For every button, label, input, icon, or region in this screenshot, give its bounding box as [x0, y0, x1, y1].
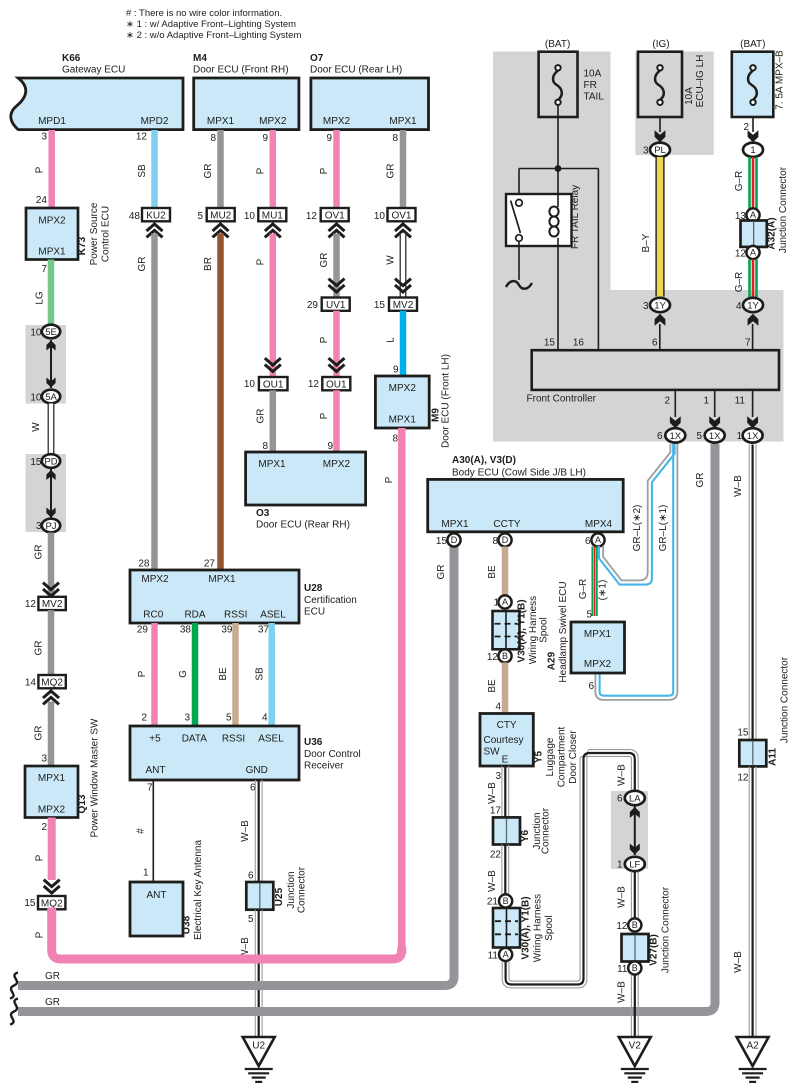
svg-text:Power Source: Power Source: [89, 202, 100, 265]
break squiggle GR trunk upper: [10, 973, 18, 999]
svg-text:A30(A), V3(D): A30(A), V3(D): [452, 455, 516, 466]
wire W-B from U25:5 to ground U2: [254, 910, 256, 1037]
wire W-B from A11 to ground A2: [748, 766, 750, 1037]
svg-text:SB: SB: [137, 164, 148, 178]
wire GR from MV2 to MQ2: [48, 610, 55, 675]
svg-text:W–B: W–B: [487, 782, 498, 804]
svg-text:K66: K66: [62, 53, 81, 64]
svg-text:ASEL: ASEL: [260, 610, 286, 621]
svg-text:3: 3: [41, 132, 47, 143]
svg-text:PL: PL: [654, 145, 666, 156]
svg-text:Certification: Certification: [304, 595, 357, 606]
wire P trunk from MQ2 to M9 riser: [52, 908, 402, 960]
ECU A30 Body ECU box: [428, 479, 624, 531]
svg-text:MQ2: MQ2: [41, 677, 63, 688]
connector box MQ2: [38, 675, 65, 688]
wire G from U28:38 to U36:3: [192, 623, 199, 726]
svg-text:Compartment: Compartment: [557, 726, 568, 787]
svg-text:MPX1: MPX1: [389, 415, 417, 426]
ground V2: [619, 1037, 651, 1066]
svg-text:RC0: RC0: [143, 610, 163, 621]
wire P from OU1 right to O3:9: [333, 390, 340, 452]
wire BE from spool B to CTY:4: [502, 663, 509, 714]
svg-text:12: 12: [25, 599, 37, 610]
svg-text:5: 5: [226, 713, 232, 724]
V27 pin circle B bottom: [628, 961, 641, 974]
svg-text:Q13: Q13: [77, 794, 88, 813]
svg-text:3: 3: [643, 146, 649, 157]
svg-text:1X: 1X: [747, 431, 759, 442]
svg-text:5: 5: [197, 211, 203, 222]
svg-text:FR TAIL Relay: FR TAIL Relay: [570, 185, 581, 249]
chevron arrows below MU2: [213, 224, 229, 231]
svg-text:W: W: [386, 255, 397, 265]
svg-text:7. 5A MPX–B: 7. 5A MPX–B: [775, 50, 786, 110]
wire 1Y left to FC pin 6: [659, 324, 661, 350]
wire from fuse FR TAIL to junction: [557, 105, 559, 168]
svg-text:Power Window Master SW: Power Window Master SW: [90, 718, 101, 837]
svg-text:28: 28: [138, 559, 150, 570]
svg-text:MPX1: MPX1: [441, 519, 469, 530]
fuse 7.5A MPX-B box: [732, 52, 774, 117]
connector oval 1Y right: [743, 298, 763, 312]
svg-text:5: 5: [586, 610, 592, 621]
svg-text:6: 6: [248, 871, 254, 882]
svg-text:5: 5: [248, 914, 254, 925]
wiring harness spool V30A Y1B upper box: [493, 611, 520, 649]
svg-text:10: 10: [374, 211, 386, 222]
svg-text:Spool: Spool: [544, 915, 555, 941]
svg-text:W: W: [31, 422, 42, 432]
connector box OU1 left: [259, 377, 288, 390]
svg-text:8: 8: [392, 133, 398, 144]
svg-text:DATA: DATA: [182, 734, 208, 745]
svg-text:Body ECU (Cowl Side J/B LH): Body ECU (Cowl Side J/B LH): [452, 468, 586, 479]
svg-text:11: 11: [735, 396, 746, 407]
svg-text:14: 14: [25, 678, 37, 689]
svg-text:8: 8: [392, 434, 398, 445]
svg-text:B: B: [632, 920, 638, 930]
svg-text:W–B: W–B: [733, 475, 744, 497]
fuse 10A ECU-IG LH symbol: [657, 65, 662, 70]
svg-text:PD: PD: [44, 456, 57, 467]
arrow out of 1Y right: [748, 314, 759, 326]
chevron arrows below OV1 right: [395, 224, 411, 231]
svg-text:Connector: Connector: [541, 807, 552, 854]
svg-text:3: 3: [41, 754, 47, 765]
Body ECU pin circle D MPX1: [447, 533, 460, 546]
svg-text:ECU–IG LH: ECU–IG LH: [695, 55, 706, 108]
svg-text:1X: 1X: [669, 431, 681, 442]
svg-text:3: 3: [184, 713, 190, 724]
svg-text:12: 12: [306, 211, 318, 222]
svg-text:15: 15: [737, 728, 749, 739]
svg-text:1: 1: [703, 396, 709, 407]
svg-text:G: G: [178, 670, 189, 678]
wire P from K66:3 to K73:24: [48, 130, 55, 208]
connector oval 1: [743, 143, 763, 157]
svg-text:Wiring Harness: Wiring Harness: [528, 596, 539, 664]
wire W-B from U36:6 GND to U25: [254, 780, 256, 882]
svg-text:ANT: ANT: [146, 765, 166, 776]
spool pin circle A: [498, 595, 511, 608]
svg-text:48: 48: [129, 211, 141, 222]
svg-text:(BAT): (BAT): [740, 39, 765, 50]
svg-text:7: 7: [147, 783, 153, 794]
connector box OV1 left: [321, 208, 349, 221]
svg-text:MPX2: MPX2: [38, 216, 66, 227]
svg-text:Connector: Connector: [297, 866, 308, 913]
wire B-Y from PL to 1Y: [656, 157, 664, 297]
wire junction right drop to FC pin 16: [597, 169, 599, 351]
junction A32 pin circle A top: [746, 208, 759, 221]
svg-text:P: P: [319, 336, 330, 343]
svg-text:GR: GR: [45, 971, 60, 982]
gray panel behind PD-PJ connector pair: [26, 454, 67, 532]
connector oval LA: [625, 791, 645, 805]
svg-text:21: 21: [487, 897, 499, 908]
svg-text:OV1: OV1: [325, 210, 345, 221]
svg-text:11: 11: [488, 951, 499, 962]
wire GR from MQ2 to Q13:3: [48, 702, 55, 767]
wire BE from U28:39 to U36:5: [232, 623, 239, 726]
connector oval 1X-1: [743, 428, 763, 442]
svg-text:(BAT): (BAT): [545, 39, 570, 50]
svg-text:5A: 5A: [45, 392, 57, 403]
junction connector A11 box: [739, 740, 766, 766]
svg-text:A2: A2: [746, 1041, 759, 1052]
relay coil wire out to FC pin 15: [557, 238, 559, 350]
svg-text:38: 38: [180, 625, 192, 636]
ECU M4 Door ECU Front RH box: [194, 78, 299, 130]
svg-text:1Y: 1Y: [747, 300, 759, 311]
svg-text:12: 12: [735, 249, 747, 260]
svg-text:ASEL: ASEL: [258, 734, 284, 745]
wire GR trunk lower from break to Front Controller 1X: [18, 444, 715, 1012]
svg-text:GR: GR: [319, 253, 330, 268]
svg-text:Front Controller: Front Controller: [527, 394, 597, 405]
svg-text:MPX2: MPX2: [584, 659, 612, 670]
svg-text:6: 6: [617, 794, 623, 805]
svg-text:O3: O3: [256, 508, 270, 519]
svg-text:10: 10: [30, 328, 42, 339]
connector oval PL: [650, 143, 670, 157]
svg-text:B: B: [503, 896, 509, 906]
svg-text:2: 2: [664, 396, 670, 407]
svg-text:B: B: [502, 651, 508, 661]
svg-text:9: 9: [326, 133, 332, 144]
svg-text:12: 12: [308, 379, 320, 390]
svg-text:Spool: Spool: [539, 617, 550, 643]
svg-text:24: 24: [36, 195, 48, 206]
svg-text:SW: SW: [484, 747, 501, 758]
wire W-B from CTY E to Y6: [501, 766, 503, 817]
svg-text:Junction Connector: Junction Connector: [780, 656, 791, 743]
svg-text:Control ECU: Control ECU: [101, 206, 112, 262]
svg-text:12: 12: [136, 132, 148, 143]
svg-text:1: 1: [143, 868, 149, 879]
connector box KU2: [142, 208, 170, 221]
svg-text:P: P: [319, 412, 330, 419]
connector box MU1: [258, 208, 286, 221]
svg-text:GR: GR: [137, 257, 148, 272]
svg-text:MU1: MU1: [262, 210, 284, 221]
relay contact bottom terminal: [516, 235, 523, 242]
connector pair arrow 5E-5A: [50, 340, 52, 388]
svg-text:GR: GR: [203, 164, 214, 179]
connector oval 1Y left: [650, 298, 670, 312]
svg-text:A: A: [503, 950, 509, 960]
svg-text:4: 4: [736, 301, 742, 312]
fuse 7.5A MPX-B symbol: [750, 65, 755, 70]
svg-text:U28: U28: [304, 583, 323, 594]
wire W-B from Y6 to spool B21: [501, 845, 503, 895]
fuse 10A ECU-IG LH box: [638, 52, 682, 117]
svg-text:GR: GR: [695, 473, 706, 488]
svg-text:Gateway ECU: Gateway ECU: [62, 65, 125, 76]
svg-text:A11: A11: [768, 748, 779, 766]
svg-text:U36: U36: [304, 737, 323, 748]
wire GR-L(*1) from A29 MPX2 to 1X-6: [600, 444, 674, 696]
chevron arrows above MV2 right: [395, 285, 411, 292]
wire junction left drop to relay contact: [518, 169, 520, 200]
svg-text:Luggage: Luggage: [545, 737, 556, 776]
gray panel behind 1Y connectors and Front Controller: [610, 290, 784, 442]
junction connector V27(B) box: [622, 934, 649, 962]
wire junction horizontal: [519, 168, 598, 170]
svg-text:1: 1: [750, 145, 755, 156]
svg-text:B: B: [632, 963, 638, 973]
svg-text:CTY: CTY: [497, 720, 517, 731]
svg-text:17: 17: [490, 806, 502, 817]
svg-text:10: 10: [30, 393, 42, 404]
svg-text:W–B: W–B: [240, 820, 251, 842]
svg-text:3: 3: [643, 301, 649, 312]
wire G-R from 1 to A13: [748, 157, 751, 209]
svg-text:G–R: G–R: [734, 171, 745, 192]
fuse 10A FR TAIL box: [539, 52, 578, 117]
svg-text:10A: 10A: [584, 69, 602, 80]
svg-text:Courtesy: Courtesy: [484, 735, 524, 746]
connector oval 1X-5: [705, 428, 725, 442]
wire GR trunk upper from break to Body ECU MPX1: [18, 546, 454, 986]
svg-text:P: P: [35, 166, 46, 173]
relay coil wire in: [557, 169, 559, 208]
wire GR-L(*2) from Body ECU MPX4 A to 1X-6: [603, 444, 670, 580]
svg-text:11: 11: [617, 964, 628, 975]
svg-text:1X: 1X: [709, 431, 721, 442]
svg-text:7: 7: [41, 264, 47, 275]
svg-text:P: P: [256, 258, 267, 265]
wire FC pin1 to 1X-5: [714, 390, 716, 417]
wire L from MV2 to M9:9: [400, 311, 407, 376]
svg-text:(∗1): (∗1): [598, 580, 609, 601]
svg-text:MPX2: MPX2: [323, 459, 351, 470]
svg-text:U38: U38: [182, 915, 193, 934]
svg-text:O7: O7: [310, 53, 324, 64]
break squiggle GR trunk lower: [10, 999, 18, 1025]
ground A2: [737, 1037, 769, 1066]
junction A32 pin circle A bottom: [746, 246, 759, 259]
wire W-B loop spool A11 to LA: [509, 756, 631, 981]
svg-text:MPX2: MPX2: [323, 116, 351, 127]
svg-text:RSSI: RSSI: [222, 734, 245, 745]
svg-text:BE: BE: [218, 667, 229, 681]
switch Q13 Power Window Master SW box: [25, 766, 78, 818]
chevron arrows above MQ2 pink: [44, 886, 60, 893]
svg-text:LA: LA: [629, 793, 641, 804]
svg-text:V2: V2: [629, 1041, 642, 1052]
wire 1Y right to FC pin 7: [752, 324, 754, 350]
wire P from MU1 to OU1: [270, 234, 277, 378]
wire P from O7:9 to OV1: [333, 130, 340, 208]
chevron arrows below MU1: [265, 224, 281, 231]
relay contact top terminal: [516, 200, 523, 207]
svg-text:A29: A29: [547, 651, 558, 670]
svg-text:V30(A), Y1(B): V30(A), Y1(B): [517, 599, 528, 662]
ECU A29 Headlamp Swivel ECU box: [571, 622, 625, 673]
svg-text:9: 9: [393, 365, 399, 376]
svg-text:10: 10: [244, 211, 256, 222]
svg-text:MU2: MU2: [210, 210, 232, 221]
svg-text:P: P: [256, 167, 267, 174]
gray panel behind ECU-IG fuse: [635, 52, 713, 156]
wire P from Q13:2 to MQ2 connector: [48, 818, 56, 881]
svg-text:A: A: [502, 597, 508, 607]
chevron arrows below OV1 left: [329, 224, 345, 231]
wire FC pin2 to 1X-6: [674, 390, 676, 417]
svg-text:L: L: [386, 337, 397, 343]
svg-text:MPX1: MPX1: [208, 574, 236, 585]
arrow into PL: [655, 130, 666, 142]
wire fuse MPX-B to connector 1: [752, 117, 754, 132]
relay FR TAIL Relay box: [506, 194, 572, 246]
svg-text:G–R: G–R: [734, 272, 745, 293]
wire GR from M4:8 to MU2: [217, 130, 224, 208]
connector oval PJ: [42, 519, 60, 533]
svg-text:W–B: W–B: [617, 886, 628, 908]
svg-text:15: 15: [24, 898, 36, 909]
svg-text:Junction Connector: Junction Connector: [661, 886, 672, 973]
wire GR from OU1 to O3:8: [270, 390, 277, 452]
junction node dot: [555, 165, 562, 172]
ECU U28 Certification ECU box: [130, 570, 299, 623]
svg-text:Door ECU (Front LH): Door ECU (Front LH): [441, 354, 452, 448]
wire W-B from LF to B12: [630, 872, 632, 919]
svg-text:3: 3: [495, 771, 501, 782]
fuse 10A FR TAIL symbol: [555, 65, 560, 70]
V27 pin circle B top: [628, 918, 641, 931]
connector box OU1 right: [322, 377, 350, 390]
junction connector U25 box: [246, 882, 273, 910]
junction connector Y6 box: [493, 817, 520, 844]
antenna U38 Electrical Key Antenna box: [130, 882, 183, 936]
svg-text:GR: GR: [386, 164, 397, 179]
svg-text:K73: K73: [77, 236, 88, 255]
connector pair arrow LA-LF: [634, 806, 636, 855]
svg-text:Junction Connector: Junction Connector: [778, 166, 789, 253]
receiver U36 Door Control Receiver box: [130, 726, 299, 780]
wire GR from PJ to MV2: [48, 533, 55, 597]
spool pin circle B: [498, 649, 511, 662]
wire LG from K73:7 to connector 5E: [48, 260, 55, 326]
svg-text:ANT: ANT: [147, 890, 167, 901]
svg-text:BE: BE: [487, 565, 498, 579]
arrow out of 1Y left: [655, 314, 666, 326]
svg-text:Junction: Junction: [286, 871, 297, 908]
svg-text:G–R: G–R: [578, 579, 589, 600]
svg-text:MPX1: MPX1: [38, 247, 66, 258]
wire P from U28:29 to U36:2: [151, 623, 158, 726]
svg-text:BR: BR: [203, 257, 214, 271]
svg-text:BE: BE: [487, 679, 498, 693]
wire GR from OV1 to UV1: [333, 234, 340, 298]
Body ECU pin circle D CCTY: [498, 533, 511, 546]
connector box UV1: [322, 298, 350, 311]
gray panel behind FR TAIL fuse and relay: [493, 52, 611, 442]
svg-text:GR: GR: [436, 565, 447, 580]
svg-text:P: P: [35, 931, 46, 938]
controller Front Controller box: [532, 350, 779, 390]
chevron arrows above UV1: [329, 285, 345, 292]
svg-text:16: 16: [573, 338, 585, 349]
svg-text:Door Control: Door Control: [304, 749, 361, 760]
svg-text:39: 39: [221, 625, 233, 636]
ECU O7 Door ECU Rear LH box: [311, 78, 429, 130]
chevron arrows below KU2: [147, 224, 163, 231]
svg-text:MPX1: MPX1: [389, 116, 417, 127]
svg-text:MPD2: MPD2: [141, 116, 169, 127]
wire P from UV1 to OU1 right: [333, 311, 340, 377]
svg-text:SB: SB: [255, 667, 266, 681]
svg-text:GR: GR: [34, 726, 45, 741]
spool lower pin circle B: [499, 894, 512, 907]
svg-text:UV1: UV1: [326, 300, 346, 311]
svg-text:A: A: [750, 248, 756, 258]
svg-text:9: 9: [262, 133, 268, 144]
connector box MV2 right: [389, 298, 417, 311]
svg-text:(IG): (IG): [652, 39, 669, 50]
wire FC pin11 to 1X-1: [752, 390, 754, 417]
svg-text:Electrical Key Antenna: Electrical Key Antenna: [193, 840, 204, 940]
wire SB from K66:12 to KU2: [151, 130, 158, 208]
svg-text:6: 6: [652, 338, 658, 349]
svg-text:6: 6: [657, 431, 663, 442]
wire relay contact to break: [518, 241, 520, 280]
svg-text:GR: GR: [34, 545, 45, 560]
svg-text:P: P: [35, 854, 46, 861]
svg-text:A: A: [750, 210, 756, 220]
connector box MV2: [38, 597, 65, 610]
svg-text:D: D: [451, 535, 458, 545]
svg-text:TAIL: TAIL: [584, 92, 605, 103]
ECU O3 Door ECU Rear RH box: [246, 452, 366, 505]
connector box OV1 right: [388, 208, 416, 221]
wire W-B from V27 to ground V2: [630, 975, 632, 1038]
ECU K66 Gateway ECU box: [11, 78, 183, 130]
svg-text:15: 15: [436, 536, 448, 547]
svg-text:B–Y: B–Y: [641, 233, 652, 252]
spool lower pin circle A: [499, 948, 512, 961]
connector pair arrow PD-PJ: [50, 469, 52, 518]
arrow into connector 1: [748, 130, 759, 142]
svg-text:OV1: OV1: [391, 210, 411, 221]
relay contact blade: [511, 201, 521, 234]
svg-text:GND: GND: [246, 765, 268, 776]
svg-text:MPX2: MPX2: [259, 116, 287, 127]
svg-text:15: 15: [544, 338, 556, 349]
svg-text:P: P: [319, 167, 330, 174]
